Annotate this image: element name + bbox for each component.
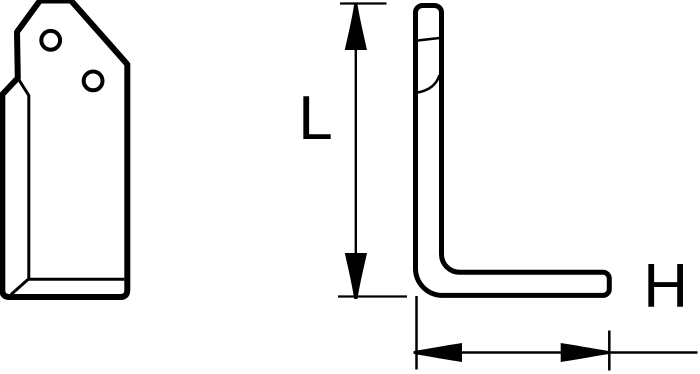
blade bevel diagonal [11, 279, 29, 295]
mounting hole 2 [84, 72, 103, 91]
blade bend line horizontal [29, 278, 125, 281]
dimension H right extension line [608, 331, 611, 371]
dimension H line [414, 351, 698, 353]
dimension H arrow left [414, 343, 462, 362]
profile bevel mark lower (arc) [418, 75, 440, 93]
dimension H left extension line [415, 296, 418, 370]
blade front view outer contour [2, 1, 127, 298]
dimension L bottom tick [338, 295, 407, 297]
dimension L top tick [340, 2, 387, 4]
svg-text:L: L [298, 84, 332, 153]
dimension H arrow right [561, 343, 609, 362]
mounting hole 1 [41, 31, 60, 50]
dimension L arrow up [345, 4, 367, 50]
profile bevel mark upper [418, 38, 440, 41]
blade bevel edge line vertical [18, 78, 29, 279]
dimension L arrow down [345, 253, 367, 299]
side profile L-shape [416, 6, 610, 296]
svg-text:H: H [643, 252, 688, 321]
dimension L line [355, 4, 357, 298]
